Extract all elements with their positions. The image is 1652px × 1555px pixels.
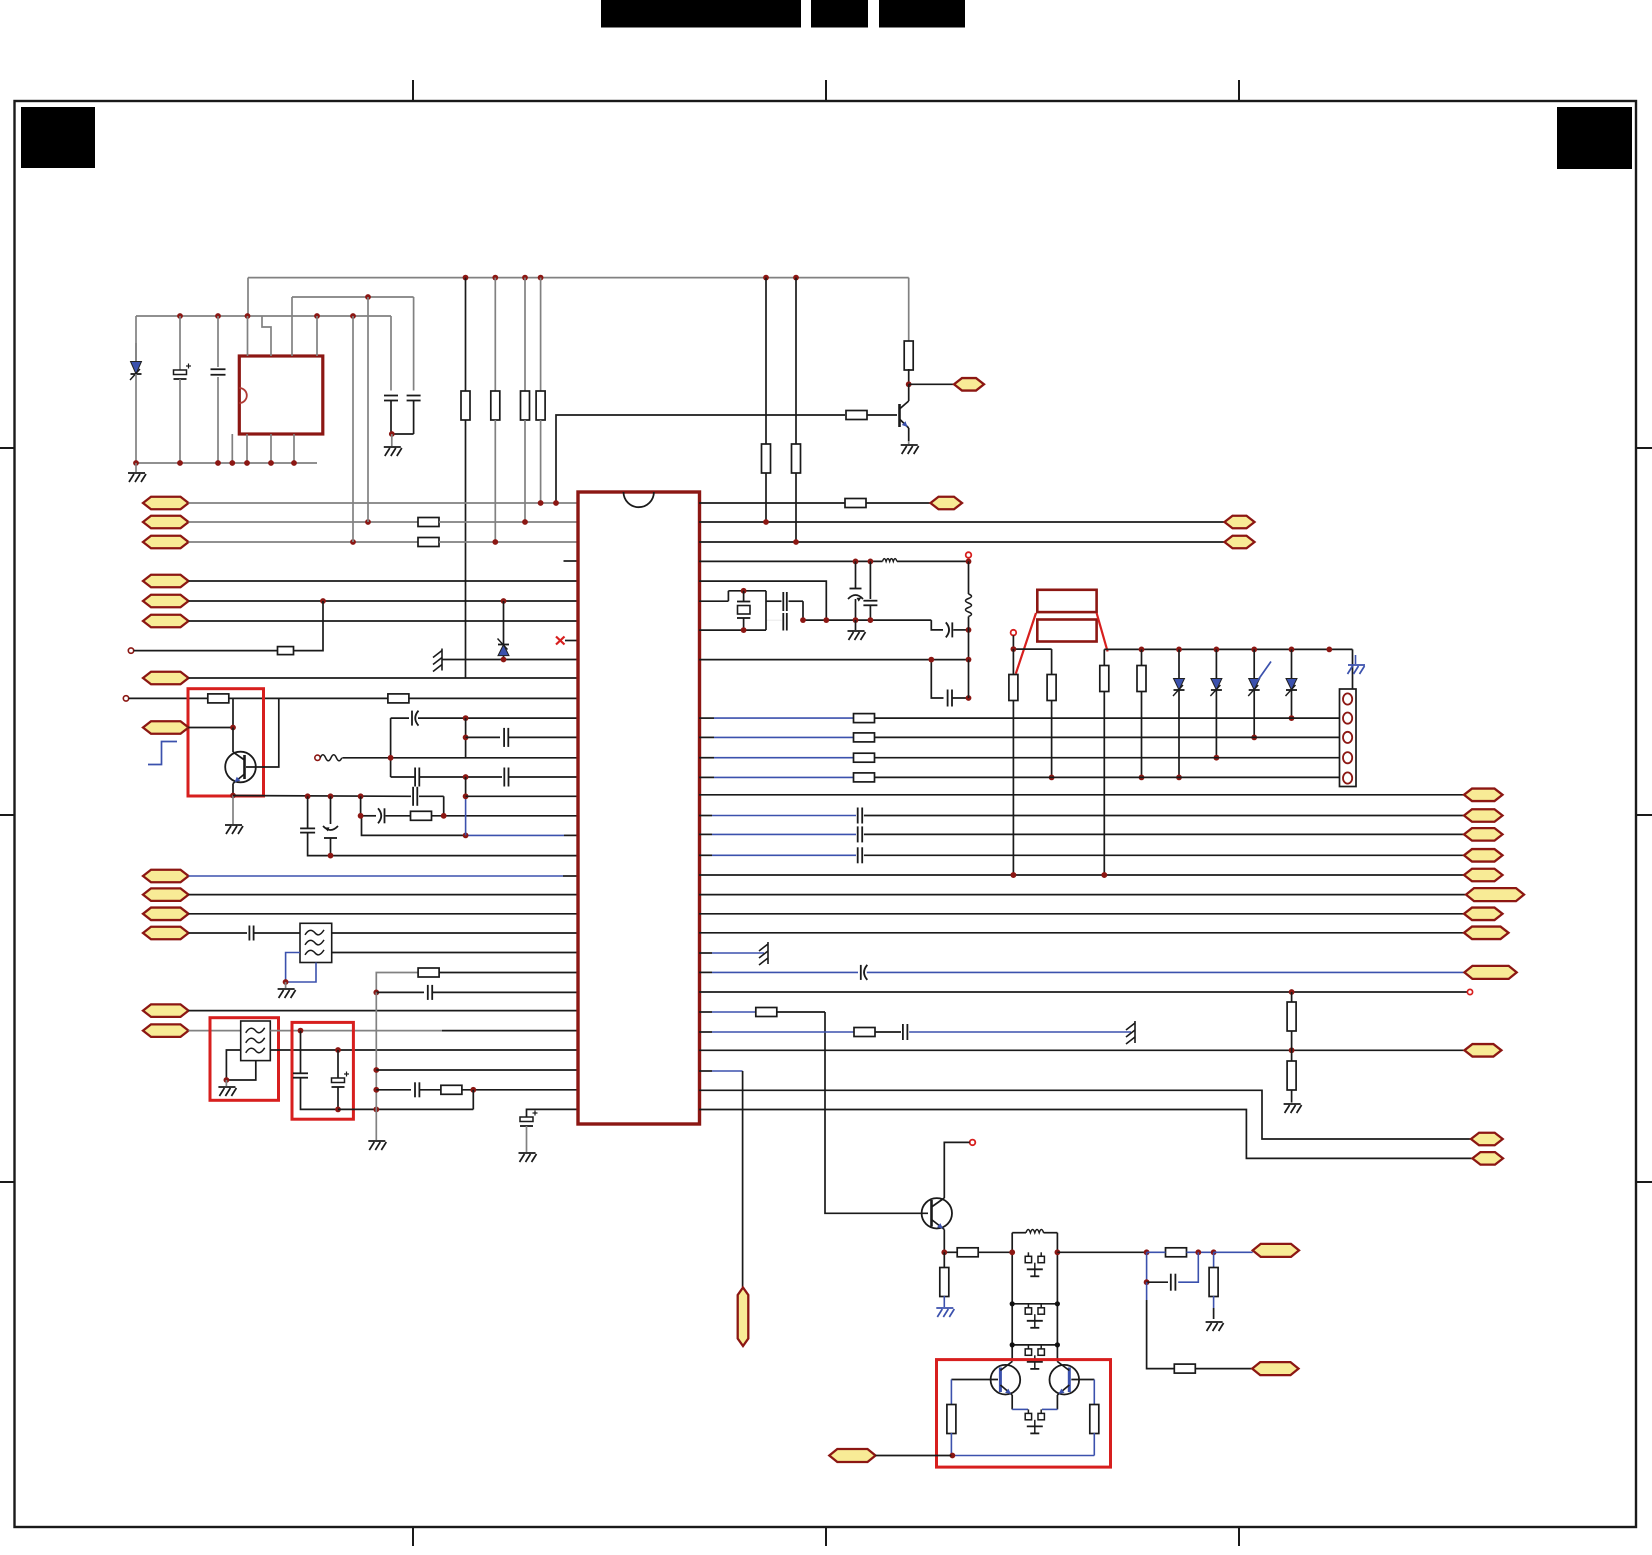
wire pin503R: [699, 502, 845, 504]
ground GND-R22: [1206, 1322, 1224, 1331]
callout box CB1: [1037, 590, 1096, 612]
wire diode bus: [1011, 635, 1353, 652]
wire pin953R blue: [699, 952, 764, 954]
resistor R4: [418, 518, 439, 527]
wire pin542R: [699, 539, 1225, 545]
resistor R12 col1051: [1047, 649, 1056, 780]
wire emitter net 1252: [941, 1249, 957, 1255]
node Q1 emitter: [230, 793, 236, 799]
node net796 junctions: [305, 793, 364, 799]
ground GND-FL2: [218, 1080, 236, 1096]
pointer line P2: [1097, 613, 1108, 652]
wire pin1109R: [699, 1110, 1472, 1159]
flag F2: [143, 516, 189, 529]
wire F14 to FL2: [189, 1030, 241, 1032]
capacitor C9: [391, 718, 502, 786]
flag F33: [829, 1449, 875, 1462]
wire ground bus: [136, 462, 317, 464]
flag F3: [143, 536, 189, 549]
transistor Q4: [951, 1362, 1020, 1410]
wire R6 to pin601: [294, 601, 324, 651]
wire pin1010: [189, 1010, 579, 1012]
resistor R19: [957, 1248, 1012, 1257]
wire pin894: [189, 894, 579, 896]
wire pin932R: [699, 932, 1464, 934]
resistor R6: [278, 647, 294, 655]
resistor Rc525: [521, 278, 530, 522]
inductor L1: [966, 561, 972, 659]
diode D3: [1173, 649, 1185, 780]
wire collector to flag: [909, 383, 954, 385]
resistor Rc766: [762, 278, 771, 522]
wire pin1050 right: [270, 1047, 578, 1053]
capacitor C27: [903, 1024, 1131, 1040]
flag F30: [1472, 1152, 1503, 1165]
resistor R9: [411, 811, 432, 820]
ground GND-R20 blue: [936, 1308, 954, 1317]
node Q2 collector junction: [906, 381, 912, 387]
capacitor C21: [931, 620, 971, 637]
crystal X1 network: [699, 588, 766, 633]
wire col368: [367, 297, 369, 522]
resistor R18: [1287, 1050, 1296, 1102]
terminal T6: [1467, 989, 1472, 994]
node junctions on top rail: [463, 275, 799, 281]
wire C3 C4 join: [389, 431, 414, 437]
ground GND-Q1: [225, 796, 243, 835]
capacitor C12: [463, 718, 578, 758]
resistor R11 col1013: [1009, 649, 1018, 878]
wire T2 net: [129, 697, 208, 699]
capacitor CU2: [1025, 1304, 1044, 1328]
wire U2 bottom pins: [232, 434, 294, 463]
redaction box title2: [811, 0, 868, 28]
resistor R25: [1090, 1380, 1099, 1456]
connector J1: [1340, 689, 1357, 787]
wire VCC drop to bus: [247, 278, 249, 316]
ground chassis GC2: [759, 942, 768, 965]
wire pin992: [373, 985, 578, 1000]
capacitor C24: [699, 826, 1464, 842]
IC U2 regulator: [239, 356, 322, 434]
wire pin913R: [699, 913, 1464, 915]
wire pin1109 right: [527, 1109, 579, 1117]
flag F12: [143, 927, 189, 940]
wire pin855: [328, 853, 578, 859]
wire pin581R: [699, 581, 826, 620]
diode D2: [498, 601, 510, 660]
wire base rail blue: [950, 1453, 1095, 1459]
flag F6: [143, 615, 189, 628]
flag F1: [143, 497, 189, 510]
capacitor C14: [293, 1031, 338, 1110]
wire blue col465: [463, 777, 469, 835]
redaction box corner-right: [1557, 107, 1632, 169]
flag F14: [143, 1024, 189, 1037]
capacitor C28: [1144, 1252, 1199, 1290]
flag F23 wide: [1466, 888, 1524, 901]
resistor Rc540: [536, 278, 545, 503]
wire pin698 right: [409, 697, 578, 699]
capacitor C6 trimmer: [323, 796, 338, 855]
wire pin1089 caps: [376, 1082, 578, 1097]
resistor R26 pin718R: [699, 714, 1340, 723]
flag F-Q2: [954, 378, 984, 391]
capacitor C19 trimmer: [848, 561, 863, 623]
wire pin659R: [699, 657, 971, 663]
pin640 X mark: [556, 637, 578, 645]
box cap block: [292, 1022, 353, 1119]
wire pin678: [189, 677, 579, 679]
flag F25: [1464, 927, 1509, 940]
ground chassis GC3: [1126, 1021, 1135, 1044]
wire emitter rail blue: [1012, 1408, 1057, 1410]
inductor L2: [871, 559, 897, 562]
ground GND-FL1: [278, 982, 296, 998]
resistor R7: [208, 694, 229, 703]
resistor R23: [1174, 1364, 1252, 1373]
inductor L3: [1012, 1229, 1057, 1252]
transistor Q2: [900, 384, 909, 441]
capacitor C23: [699, 808, 1464, 824]
resistor R20 vertical: [940, 1252, 949, 1307]
capacitor C15 electrolytic: [332, 1050, 350, 1112]
capacitor C11: [391, 711, 578, 726]
node bus junctions: [1139, 647, 1333, 653]
wire F33 to amp: [876, 1455, 952, 1457]
capacitor C25: [699, 847, 1464, 863]
ground GND-R18: [1284, 1102, 1302, 1113]
wire LC rails: [1009, 1249, 1060, 1361]
capacitor C4: [407, 396, 421, 435]
ground chassis GC1: [433, 649, 442, 672]
wire col353: [352, 316, 354, 542]
waveform step symbol: [148, 742, 177, 765]
wire pin992R: [699, 989, 1467, 995]
varistor RV1: [130, 316, 142, 463]
wire pin796 right: [466, 795, 578, 797]
resistor R17: [1287, 992, 1296, 1050]
transistor Q3: [922, 1198, 952, 1252]
ground GND2: [384, 434, 402, 456]
wire net1109 bus: [338, 1107, 473, 1113]
flag F26 wide: [1464, 966, 1516, 979]
wire flag1252 blue: [1214, 1251, 1253, 1253]
filter FL2: [241, 1021, 271, 1061]
ground GND-C19: [848, 620, 866, 640]
resistor Rc796: [792, 278, 801, 542]
capacitor C7: [413, 787, 444, 816]
wire pin561 stub: [564, 560, 579, 562]
resistor R8: [388, 694, 409, 703]
resistor R10: [845, 499, 931, 508]
ground GND-C16: [519, 1153, 537, 1162]
wire col376: [373, 992, 379, 1140]
wire pin972: [376, 968, 578, 992]
wire supply bus B: [292, 297, 414, 391]
capacitor C3: [384, 396, 398, 435]
flag F20: [1464, 828, 1503, 841]
resistor R3: [846, 411, 897, 420]
terminal T7: [970, 1140, 976, 1146]
wire pin621: [189, 620, 579, 622]
ground symbol blue: [1348, 665, 1366, 674]
wire pin561R: [699, 559, 971, 565]
resistor R21: [1147, 1248, 1217, 1257]
node bus A junctions: [177, 313, 356, 319]
ground GND-Q2: [901, 441, 919, 454]
capacitor C16 electrolytic: [520, 1111, 538, 1153]
box filter FL2: [210, 1018, 279, 1101]
capacitor C10: [463, 768, 578, 787]
wire pin1070: [376, 1069, 578, 1071]
resistor R27 pin737R: [699, 733, 1340, 742]
flag F32: [1252, 1362, 1298, 1375]
flag F21: [1464, 849, 1503, 862]
wire pin1030 right: [270, 1028, 578, 1034]
filter FL1: [300, 923, 332, 962]
terminal T1: [128, 648, 133, 653]
flag F4: [143, 575, 189, 588]
wire pin522 left: [189, 521, 419, 523]
wire R7 to R8: [229, 697, 388, 699]
wire pin522 right: [365, 519, 578, 525]
redaction box corner-left: [21, 107, 95, 168]
flag F8: [143, 721, 189, 734]
pointer line P1: [1016, 613, 1036, 674]
resistor R28 pin757R: [699, 753, 1340, 762]
wire pin1071R blue: [699, 1070, 743, 1072]
wire Q3 collector: [944, 1142, 969, 1198]
wire pin894R: [699, 894, 1466, 896]
wire pin913: [189, 913, 579, 915]
resistor R15: [699, 1008, 825, 1017]
wire VCC top rail: [248, 277, 909, 279]
wire pin1090R: [699, 1090, 1471, 1139]
flag F17: [1225, 536, 1255, 549]
wire pin601: [189, 598, 579, 604]
flag F15: [931, 497, 963, 510]
diode D5: [1248, 649, 1271, 740]
wire pin876 blue: [143, 870, 578, 883]
redaction box title1: [601, 0, 801, 28]
wire pin581: [189, 580, 579, 582]
wire F8 to node: [189, 698, 236, 730]
resistor R13 col1104: [1100, 649, 1109, 877]
resistor Rc495: [491, 278, 500, 542]
resistor Rc465: [461, 278, 470, 678]
terminal T5: [1011, 630, 1017, 636]
flag F24: [1464, 908, 1503, 921]
capacitor C5: [300, 796, 330, 855]
redaction box title3: [879, 0, 965, 28]
flag F29: [1471, 1133, 1503, 1146]
resistor R16: [699, 1028, 901, 1037]
flag F13: [143, 1004, 189, 1017]
wire FL1 outputs: [332, 933, 578, 953]
wire U2 top pins: [248, 297, 318, 356]
flag F16: [1225, 516, 1255, 529]
flag F28 vertical: [738, 1288, 749, 1347]
wire pin835 blue: [463, 833, 578, 839]
resistor R14 col1141: [1137, 649, 1146, 780]
ground GND-col376: [368, 1141, 386, 1150]
wire pin542 left: [189, 541, 419, 543]
flag F22: [1464, 869, 1503, 882]
capacitor C8: [361, 796, 411, 823]
capacitor C17: [766, 592, 803, 620]
flag F27: [1464, 1044, 1501, 1057]
wire Q3 base drop: [825, 1012, 928, 1213]
terminal T2: [123, 696, 128, 701]
resistor R22: [1209, 1252, 1218, 1319]
flag F7: [143, 672, 189, 685]
wire pin542 right: [350, 539, 578, 545]
resistor R2: [904, 341, 913, 384]
node bus B junction: [365, 294, 371, 300]
capacitor C26: [699, 965, 1464, 980]
capacitor CU4: [1025, 1409, 1044, 1433]
wire pin794R: [699, 794, 1464, 796]
wire FL1 ground hook blue: [283, 953, 316, 985]
wire net620: [800, 617, 931, 623]
box power amp: [937, 1360, 1111, 1468]
wire FL2 ground hook: [224, 1050, 256, 1083]
transistor Q1: [225, 698, 279, 795]
flag F18: [1464, 789, 1503, 802]
capacitor C13: [249, 926, 300, 941]
wire pin816 right: [432, 813, 579, 819]
wire pin875R: [699, 872, 1464, 878]
flag F11: [143, 908, 189, 921]
wire net796 bus: [233, 795, 411, 798]
resistor R29 pin777R: [699, 773, 1340, 782]
flag F19: [1464, 809, 1503, 822]
wire T1 net: [134, 650, 278, 652]
resistor R24: [947, 1380, 956, 1456]
capacitor CU1: [1025, 1252, 1044, 1276]
wire pin522R: [699, 519, 1225, 525]
flag F31: [1253, 1244, 1299, 1257]
flag F5: [143, 595, 189, 608]
diode D6: [1286, 649, 1298, 721]
wire pin503: [189, 500, 579, 506]
wire pin933 left: [189, 932, 248, 934]
wire col1146 to flag: [1147, 1282, 1174, 1368]
resistor R5: [418, 538, 439, 547]
wire pin835: [358, 813, 466, 836]
node ground bus junctions: [133, 460, 297, 466]
capacitor C18: [766, 613, 787, 631]
wire base line: [556, 415, 845, 503]
wire top rail to Q2: [908, 278, 910, 342]
transistor Q5: [1050, 1362, 1095, 1410]
diode D4: [1210, 649, 1222, 760]
terminal T3 inductor: [315, 755, 578, 761]
capacitor C20: [863, 561, 877, 623]
flag F10: [143, 888, 189, 901]
callout box CB2: [1037, 620, 1096, 642]
capacitor C22: [928, 630, 971, 707]
wire pin1050R: [699, 1047, 1464, 1053]
ground GND-bus blue: [1343, 649, 1356, 698]
capacitor C1 electrolytic: [174, 316, 192, 463]
capacitor CU3: [1025, 1345, 1044, 1369]
wire pin659: [442, 657, 578, 663]
terminal T4: [966, 552, 972, 558]
ground GND1: [128, 463, 146, 482]
IC U1 main: [578, 492, 700, 1124]
capacitor C2: [211, 316, 226, 463]
box audio switch Q1: [188, 689, 264, 796]
wire col742 to flag: [742, 1071, 744, 1287]
wire net1252 mid: [1057, 1249, 1149, 1255]
wire net1109 corner: [472, 1090, 474, 1110]
wire supply bus A: [136, 316, 391, 391]
